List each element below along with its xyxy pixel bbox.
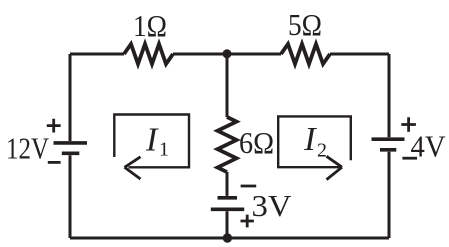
svg-text:2: 2 (317, 139, 327, 161)
svg-text:3V: 3V (252, 188, 293, 223)
svg-text:6Ω: 6Ω (239, 125, 274, 160)
svg-text:12V: 12V (6, 131, 49, 166)
svg-text:1Ω: 1Ω (133, 8, 167, 43)
svg-text:1: 1 (159, 139, 169, 161)
svg-text:4V: 4V (411, 129, 447, 164)
svg-text:I: I (145, 122, 159, 159)
svg-text:I: I (303, 121, 317, 158)
svg-text:5Ω: 5Ω (288, 7, 322, 42)
